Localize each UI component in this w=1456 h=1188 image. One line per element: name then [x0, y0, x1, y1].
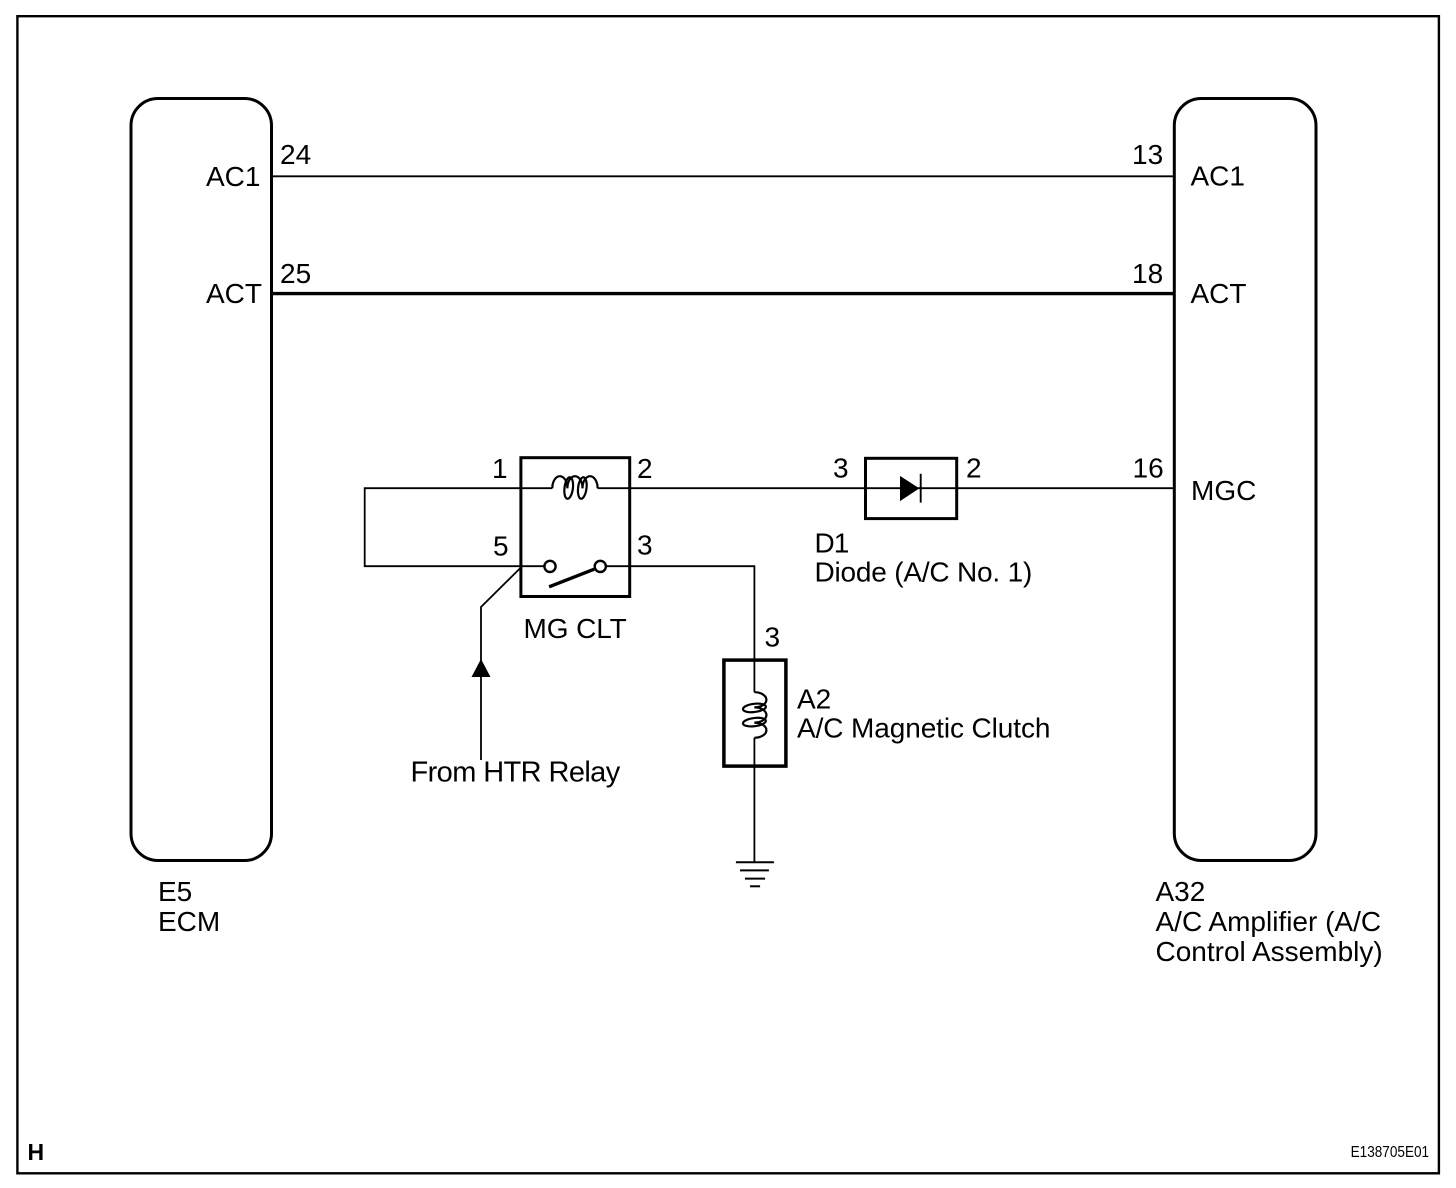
- wire MGC: relay coil pin 2 through diode to A32 pin 16: [598, 487, 1175, 489]
- svg-text:3: 3: [637, 530, 653, 561]
- svg-text:A/C Amplifier (A/C: A/C Amplifier (A/C: [1156, 906, 1382, 937]
- diode D1 triangle: [900, 476, 919, 501]
- svg-text:ECM: ECM: [158, 906, 220, 937]
- svg-text:ACT: ACT: [1191, 278, 1247, 309]
- relay MG CLT box: [521, 458, 630, 597]
- svg-text:D1: D1: [815, 528, 849, 559]
- svg-text:AC1: AC1: [1191, 161, 1245, 192]
- diode D1 cathode bar: [920, 474, 922, 503]
- connector E5 (ECM): [131, 99, 272, 861]
- svg-text:24: 24: [280, 139, 311, 170]
- wire AC1: E5 pin 24 to A32 pin 13: [273, 175, 1176, 177]
- svg-text:2: 2: [966, 452, 982, 483]
- arrowhead (from HTR relay, pointing up): [472, 659, 491, 677]
- svg-text:A/C Magnetic Clutch: A/C Magnetic Clutch: [797, 713, 1050, 744]
- wire: relay switch to pin 3 and down to clutch: [606, 566, 754, 660]
- diagonal wire from relay pin 5 to HTR relay arrow: [481, 568, 521, 761]
- wire: relay pin1 to coil start: [521, 487, 552, 489]
- svg-text:25: 25: [280, 258, 311, 289]
- ground symbol: [736, 862, 774, 886]
- diode D1 box: [866, 458, 957, 518]
- svg-text:H: H: [28, 1139, 45, 1165]
- svg-text:AC1: AC1: [206, 161, 260, 192]
- A2 magnetic clutch box: [724, 660, 786, 766]
- relay switch contact circles: [544, 561, 555, 572]
- svg-text:3: 3: [765, 621, 781, 652]
- svg-text:E138705E01: E138705E01: [1351, 1144, 1430, 1161]
- svg-text:A2: A2: [797, 684, 831, 715]
- wire ACT: E5 pin 25 to A32 pin 18 (thick): [273, 292, 1176, 295]
- svg-text:13: 13: [1132, 139, 1163, 170]
- svg-text:2: 2: [637, 453, 653, 484]
- svg-text:5: 5: [493, 531, 509, 562]
- svg-text:1: 1: [492, 453, 508, 484]
- svg-text:From HTR Relay: From HTR Relay: [411, 756, 621, 788]
- svg-text:E5: E5: [158, 876, 192, 907]
- svg-text:Diode (A/C No. 1): Diode (A/C No. 1): [815, 557, 1033, 588]
- svg-text:Control Assembly): Control Assembly): [1156, 936, 1383, 967]
- svg-text:3: 3: [833, 452, 849, 483]
- svg-text:ACT: ACT: [206, 278, 262, 309]
- wire from A2 coil down to ground: [753, 738, 755, 863]
- wire inside A2 box to coil: [753, 660, 755, 692]
- svg-text:18: 18: [1132, 258, 1163, 289]
- relay switch blade: [549, 569, 594, 587]
- wire: switch left contact: [521, 565, 545, 567]
- svg-text:MG CLT: MG CLT: [524, 613, 627, 644]
- svg-text:16: 16: [1133, 453, 1164, 484]
- A2 clutch coil (vertical): [742, 692, 766, 738]
- connector A32 (A/C Amplifier): [1174, 99, 1316, 861]
- svg-text:A32: A32: [1156, 876, 1206, 907]
- wire loop: relay pin 1 to pin 5 (left U loop): [365, 488, 521, 566]
- relay coil: [552, 476, 597, 499]
- svg-text:MGC: MGC: [1191, 475, 1256, 506]
